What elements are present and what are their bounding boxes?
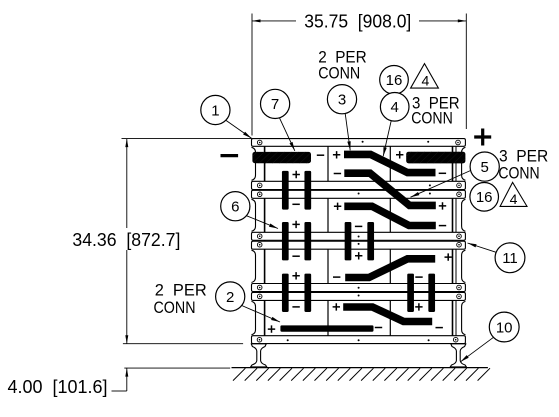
svg-text:2 PER: 2 PER [155, 281, 207, 300]
left upright channel [252, 146, 265, 335]
left foot [251, 344, 267, 367]
svg-text:34.36 [872.7]: 34.36 [872.7] [72, 229, 180, 250]
strap S2 tier1-to-tier2 [344, 173, 436, 205]
inter-tier connectors left column rail2 [282, 171, 311, 210]
svg-text:CONN: CONN [411, 108, 453, 127]
svg-text:4.00 [101.6]: 4.00 [101.6] [8, 376, 108, 397]
rail 3 [252, 232, 466, 249]
svg-text:35.75 [908.0]: 35.75 [908.0] [304, 11, 411, 32]
balloon 5 [411, 152, 500, 197]
svg-text:16: 16 [476, 189, 493, 206]
right upright channel [453, 146, 466, 335]
svg-text:11: 11 [502, 250, 518, 267]
svg-text:16: 16 [386, 72, 403, 89]
svg-text:2: 2 [226, 289, 234, 306]
triangle note 4 top [411, 64, 439, 89]
dimension: overall height 34.36 [872.7] [72, 139, 255, 344]
balloon 16 right [470, 183, 499, 212]
strap S1 tier1 rowA-to-rowB [344, 154, 436, 172]
rail center dots [287, 141, 431, 341]
balloon 4 [380, 93, 409, 157]
svg-text:CONN: CONN [498, 163, 539, 182]
svg-text:6: 6 [231, 199, 239, 216]
note 2 PER CONN (bottom left) [154, 281, 207, 317]
battery cell divider lines [328, 146, 390, 335]
top rail (rail 1) [252, 139, 466, 147]
bottom rail (rail 5) [252, 336, 466, 344]
svg-text:5: 5 [481, 159, 489, 176]
balloon 2 [216, 282, 280, 322]
note 3 PER CONN (top right) [411, 94, 459, 128]
balloon 16 top [380, 66, 409, 95]
floor line [232, 367, 488, 369]
balloon 3 [327, 85, 356, 151]
balloon 6 [221, 192, 278, 229]
floor hatching [233, 368, 490, 380]
tier4 long strap [280, 325, 373, 331]
svg-text:7: 7 [271, 96, 279, 113]
svg-text:4: 4 [391, 99, 399, 116]
main negative terminal symbol [221, 154, 239, 157]
dimension: overall width 35.75 [908.0] [252, 11, 466, 136]
terminal polarity signs [268, 151, 452, 333]
rail bolts [257, 140, 461, 342]
strap S3 tier2 rowA-to-rowB [344, 206, 436, 225]
inter-tier connectors left column rail4 [282, 274, 311, 312]
inter-tier connectors middle column rail3 [345, 222, 374, 260]
svg-text:10: 10 [496, 319, 513, 336]
right foot [450, 344, 466, 367]
svg-text:4: 4 [510, 191, 518, 207]
svg-text:1: 1 [211, 102, 219, 119]
strap S5 tier4 [343, 307, 432, 322]
svg-text:3: 3 [338, 92, 346, 109]
note 3 PER CONN (right) [498, 146, 548, 182]
inter-tier connectors left column rail3 [282, 222, 311, 260]
balloon 7 [261, 89, 295, 151]
tier1 left hatched strap [244, 151, 319, 164]
balloon 1 [201, 95, 252, 138]
svg-text:CONN: CONN [154, 298, 196, 317]
rail 2 [252, 181, 466, 198]
triangle note 4 right [500, 182, 527, 207]
balloon 11 [468, 243, 525, 273]
svg-text:CONN: CONN [318, 64, 360, 83]
dimension: base height 4.00 [101.6] [8, 368, 231, 397]
tier1 right hatched strap [398, 151, 473, 165]
rail 4 [252, 284, 466, 301]
svg-text:4: 4 [422, 73, 430, 89]
main positive terminal symbol [474, 129, 491, 146]
strap S4 tier3 rowB-to-rowA [345, 259, 435, 278]
balloon 10 [461, 312, 520, 362]
note 2 PER CONN (top) [318, 48, 367, 83]
inter-tier connectors right column rail4 [407, 274, 435, 312]
